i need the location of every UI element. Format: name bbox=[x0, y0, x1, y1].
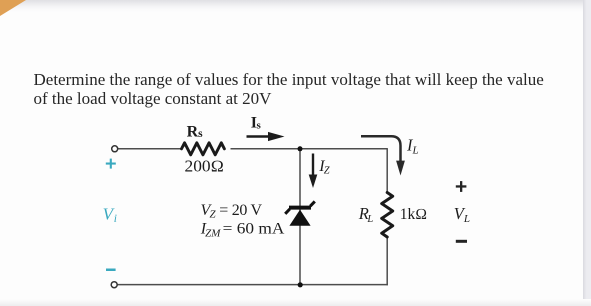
wire right vertical lower bbox=[386, 237, 388, 286]
svg-text:200Ω: 200Ω bbox=[185, 156, 225, 175]
minus sign right bbox=[456, 240, 467, 243]
svg-text:IL: IL bbox=[406, 136, 419, 157]
svg-text:RL: RL bbox=[358, 204, 374, 225]
orange corner triangle bbox=[0, 0, 26, 16]
plus sign right bbox=[456, 181, 467, 192]
problem statement text bbox=[34, 70, 564, 109]
resistor R_L zigzag bbox=[382, 193, 393, 237]
zener diode D1 cathode bar bbox=[285, 201, 315, 213]
arrowhead IL bbox=[396, 161, 405, 176]
wire bottom segment bbox=[118, 284, 388, 286]
right gray band bbox=[583, 0, 591, 306]
svg-text:Vi: Vi bbox=[103, 204, 117, 225]
svg-text:= 60 mA: = 60 mA bbox=[223, 221, 285, 238]
svg-text:Is: Is bbox=[251, 114, 262, 131]
wire top-left segment bbox=[118, 148, 182, 150]
svg-text:1kΩ: 1kΩ bbox=[400, 206, 427, 223]
input terminal top bbox=[112, 146, 118, 152]
minus sign left (teal) bbox=[106, 269, 116, 272]
current arrow IL bbox=[361, 136, 401, 161]
node junction dot top bbox=[298, 146, 303, 151]
wire top-middle segment bbox=[231, 148, 388, 150]
svg-text:IZ: IZ bbox=[318, 158, 330, 176]
svg-text:VZ = 20 V: VZ = 20 V bbox=[201, 202, 263, 221]
top gray band bbox=[0, 0, 591, 12]
node junction dot bottom bbox=[298, 282, 303, 287]
current arrow Is bbox=[247, 132, 285, 141]
plus sign left (teal) bbox=[106, 159, 116, 169]
zener diode D1 anode triangle bbox=[289, 210, 310, 226]
svg-text:Rs: Rs bbox=[187, 124, 204, 141]
input terminal bottom bbox=[111, 282, 117, 288]
current arrow Iz bbox=[309, 154, 318, 189]
svg-text:IZM: IZM bbox=[200, 221, 221, 240]
wire zener branch vertical bbox=[299, 149, 301, 285]
bottom gray band bbox=[0, 299, 591, 306]
wire right vertical upper bbox=[386, 148, 388, 193]
resistor R_s zigzag bbox=[182, 143, 225, 155]
svg-text:VL: VL bbox=[454, 204, 470, 225]
